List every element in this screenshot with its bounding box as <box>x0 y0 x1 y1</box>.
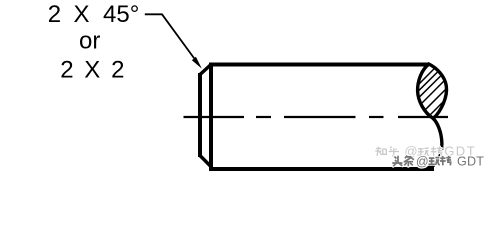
watermark 1: latin text <box>404 144 476 159</box>
svg-text:X: X <box>74 1 90 28</box>
svg-text:2: 2 <box>111 57 124 84</box>
shaft bottom line <box>209 167 434 171</box>
label: chamfer note line 1 <box>48 1 139 28</box>
chamfer top diagonal <box>200 65 212 76</box>
svg-text:or: or <box>79 27 100 54</box>
svg-text:45°: 45° <box>103 1 139 28</box>
shaft top line <box>209 63 429 67</box>
watermark 2: latin text <box>416 154 484 168</box>
svg-text:@: @ <box>416 155 429 169</box>
chamfer bottom diagonal <box>200 155 212 167</box>
svg-text:2: 2 <box>60 57 73 84</box>
break: hatching <box>419 69 446 115</box>
watermark 1: gray pass <box>375 147 442 157</box>
label: chamfer note line 3 <box>60 57 124 84</box>
watermark 2: gray pass <box>392 156 451 167</box>
svg-text:2: 2 <box>48 1 61 28</box>
watermark 1: zhihu 知乎 @玩转GDT (white halo pass) <box>375 147 442 157</box>
shaft chamfer-edge vertical <box>209 63 213 172</box>
svg-text:GDT: GDT <box>457 154 484 168</box>
break: lower S curve <box>428 119 442 168</box>
svg-text:X: X <box>84 57 100 84</box>
shaft end-face vertical <box>198 73 202 157</box>
centerline (chain line) <box>184 116 449 118</box>
break: lens outline <box>418 64 447 119</box>
arrowhead of leader <box>192 57 202 69</box>
watermark 2: toutiao 头条@玩转GDT (white halo pass) <box>392 156 451 167</box>
wire: leader line <box>145 14 197 61</box>
